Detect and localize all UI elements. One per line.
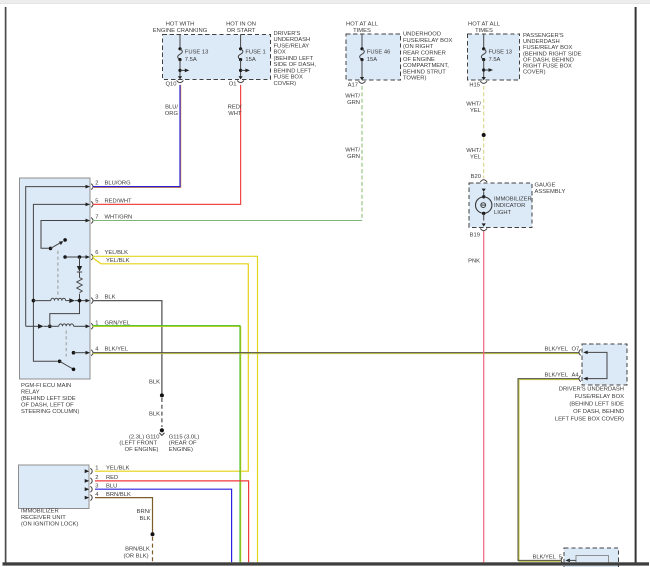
svg-text:3: 3 (95, 295, 98, 301)
svg-text:YEL: YEL (470, 108, 482, 114)
wire RED (receiver pin 2 to bottom edge) (95, 481, 249, 562)
label: driver's underdash fuse/relay box (right) description (555, 387, 624, 423)
fuse FUSE 1 15A (driver's box) (238, 34, 265, 76)
svg-text:RED/: RED/ (228, 105, 242, 111)
relay U1: PGM-FI ECU main relay box (20, 178, 91, 379)
svg-text:PNK: PNK (468, 259, 480, 265)
page frame left border (5, 7, 7, 565)
svg-text:YEL/BLK: YEL/BLK (106, 465, 130, 471)
svg-text:WHT/: WHT/ (345, 94, 360, 100)
svg-text:(BEHIND LEFT SIDE: (BEHIND LEFT SIDE (21, 396, 76, 402)
wire BLU (receiver pin 3 to bottom edge) (95, 489, 232, 562)
fuse FUSE 13 7.5A (passenger box) (481, 34, 512, 77)
wire WHT/YEL dashed (H15 to B20) (483, 86, 485, 178)
label: immobilizer receiver unit description (21, 508, 78, 527)
connector A4 (544, 373, 587, 382)
svg-text:OF ENGINE): OF ENGINE) (125, 447, 159, 453)
svg-text:RED/WHT: RED/WHT (105, 198, 133, 204)
gauge assembly box (469, 183, 532, 227)
label: passenger's underdash fuse/relay box description (523, 33, 582, 76)
node: BLK splice (160, 393, 164, 397)
svg-text:(BEHIND LEFT: (BEHIND LEFT (274, 56, 314, 62)
svg-text:2: 2 (95, 475, 98, 481)
wire GRN/YEL (pin 1 to bottom edge) (93, 326, 241, 563)
svg-text:HOT WITH: HOT WITH (166, 22, 195, 28)
label: BRN/BLK (OR BLK) (123, 547, 150, 560)
svg-text:BLK/YEL: BLK/YEL (532, 554, 556, 560)
wire: resistor to coil2 junction (50, 294, 80, 327)
svg-text:BRN/BLK: BRN/BLK (106, 492, 131, 498)
svg-text:Q10: Q10 (166, 82, 177, 88)
svg-text:LEFT FUSE BOX COVER): LEFT FUSE BOX COVER) (555, 417, 624, 423)
svg-text:BLK/YEL: BLK/YEL (544, 346, 568, 352)
fuse FUSE 13 7.5A (driver's box) (178, 34, 209, 76)
svg-text:3: 3 (95, 483, 98, 489)
svg-text:FUSE 13: FUSE 13 (489, 49, 513, 55)
svg-text:RECEIVER UNIT: RECEIVER UNIT (21, 515, 66, 521)
svg-text:ENGINE CRANKING: ENGINE CRANKING (153, 28, 208, 34)
svg-text:UNDERHOOD: UNDERHOOD (403, 32, 441, 38)
svg-text:B20: B20 (471, 174, 481, 180)
diode D2 (relay coil 2 series) (38, 324, 44, 329)
connector B20 (471, 174, 487, 192)
label: PGM-FI ECU main relay description (21, 383, 79, 415)
relay coil L1 (33, 298, 65, 300)
svg-text:DRIVER'S: DRIVER'S (274, 31, 301, 37)
connector H15 (469, 77, 487, 88)
wire BRN/BLK dashed (to bottom edge) (152, 537, 154, 563)
page frame bottom bar (3, 562, 650, 565)
label: RED/WHT (228, 105, 242, 118)
relay pin 4 connector (86, 347, 129, 356)
ground G110/G115 (159, 428, 164, 435)
wire YEL/BLK 1 (pin 6 to bottom edge) (93, 256, 258, 562)
svg-text:7.5A: 7.5A (185, 57, 197, 63)
fuse box: underhood fuse/relay box (346, 34, 401, 80)
svg-text:FUSE 1: FUSE 1 (245, 49, 265, 55)
relay pin 7 connector (86, 215, 133, 224)
svg-text:7: 7 (95, 215, 98, 221)
svg-text:INDICATOR: INDICATOR (494, 203, 525, 209)
svg-text:RED: RED (106, 475, 118, 481)
svg-text:(2.3L) G110: (2.3L) G110 (129, 434, 160, 440)
svg-text:5: 5 (95, 198, 98, 204)
svg-text:G115 (3.0L): G115 (3.0L) (169, 434, 200, 440)
svg-text:BLK/YEL: BLK/YEL (105, 347, 129, 353)
relay contact SW2 (movable arm) (58, 360, 75, 372)
svg-text:BRN/BLK: BRN/BLK (125, 547, 150, 553)
svg-text:A17: A17 (348, 82, 358, 88)
fuse box: passenger's underdash fuse/relay box (468, 34, 520, 80)
svg-text:COMPARTMENT,: COMPARTMENT, (403, 63, 449, 69)
label: G115 (3.0L) (REAR OF ENGINE) (169, 434, 200, 453)
svg-text:FUSE/RELAY BOX: FUSE/RELAY BOX (403, 38, 453, 44)
diode D3 (relay coil 1 series) (69, 298, 75, 303)
node: BRN/BLK splice (151, 532, 155, 536)
wire BRN/BLK (receiver pin 4) (95, 498, 153, 535)
label: WHT/GRN upper (345, 94, 360, 107)
label: BRN/BLK (137, 509, 151, 522)
connector Q10 (166, 76, 184, 87)
svg-text:UNDERDASH: UNDERDASH (274, 37, 311, 43)
connector O1 (229, 76, 244, 87)
connector O7 (544, 346, 587, 355)
svg-text:5: 5 (559, 554, 562, 560)
svg-text:LIGHT: LIGHT (494, 210, 512, 216)
label: BLU/ORG (165, 105, 179, 118)
svg-text:TIMES: TIMES (353, 28, 371, 34)
svg-text:(LEFT FRONT: (LEFT FRONT (119, 441, 157, 447)
label: (2.3L) G110 (LEFT FRONT OF ENGINE) (119, 434, 159, 453)
svg-text:OF DASH, BEHIND: OF DASH, BEHIND (523, 57, 574, 63)
connector 5 (bottom right box) (532, 554, 576, 563)
svg-text:H15: H15 (469, 82, 480, 88)
svg-text:BLK: BLK (105, 295, 116, 301)
svg-text:YEL: YEL (470, 154, 482, 160)
relay pin 6 connector (86, 250, 129, 260)
svg-text:TOWER): TOWER) (403, 76, 426, 82)
svg-text:1: 1 (95, 465, 98, 471)
relay pin 5 connector (86, 198, 133, 207)
label: underhood fuse/relay box description (403, 32, 453, 82)
component box inside bottom right box (576, 555, 608, 564)
svg-text:6: 6 (95, 250, 98, 256)
svg-text:ORG: ORG (165, 111, 179, 117)
svg-text:OF DASH, BEHIND: OF DASH, BEHIND (573, 409, 624, 415)
wire YEL/BLK 2 (pin 6 branch to receiver pin 1) (93, 258, 249, 471)
svg-text:SIDE OF DASH,: SIDE OF DASH, (274, 62, 317, 68)
wire BLK dashed (to ground point) (161, 398, 163, 427)
svg-text:(ON RIGHT: (ON RIGHT (403, 44, 434, 50)
mechanical link (dashed) contact 2 (65, 331, 67, 357)
svg-text:A4: A4 (572, 373, 580, 379)
svg-text:TIMES: TIMES (475, 28, 493, 34)
svg-text:(OR BLK): (OR BLK) (123, 553, 148, 559)
svg-text:(REAR OF: (REAR OF (169, 441, 197, 447)
label: driver's underdash fuse/relay box description (274, 31, 317, 87)
svg-text:GRN: GRN (347, 154, 360, 160)
svg-text:BLK/YEL: BLK/YEL (544, 373, 568, 379)
svg-text:BEHIND LEFT: BEHIND LEFT (274, 68, 312, 74)
svg-text:STEERING COLUMN): STEERING COLUMN) (21, 409, 79, 415)
svg-text:YEL/BLK: YEL/BLK (106, 258, 130, 264)
fuse box: driver's underdash fuse/relay box (right) (582, 344, 627, 385)
svg-text:FUSE BOX: FUSE BOX (274, 75, 303, 81)
svg-text:BLK: BLK (140, 516, 151, 522)
connector B19 (470, 223, 487, 238)
wire WHT/GRN vertical dashed (to A17) (361, 86, 363, 221)
page frame top strip (0, 0, 650, 3)
receiver pin 2 connector (85, 475, 119, 484)
svg-text:(BEHIND RIGHT SIDE: (BEHIND RIGHT SIDE (523, 51, 582, 57)
node: pin5/coil1 junction (32, 299, 36, 303)
fuse FUSE 46 15A (360, 34, 391, 77)
svg-text:YEL/BLK: YEL/BLK (105, 250, 129, 256)
relay pin 1 connector (86, 320, 131, 329)
fuse box: bottom right dashed box (564, 548, 618, 567)
lamp: immobilizer indicator light (476, 192, 492, 221)
svg-text:HOT AT ALL: HOT AT ALL (346, 22, 379, 28)
svg-text:15A: 15A (367, 57, 377, 63)
svg-text:DRIVER'S UNDERDASH: DRIVER'S UNDERDASH (559, 387, 624, 393)
svg-text:PASSENGER'S: PASSENGER'S (523, 33, 564, 39)
svg-text:HOT AT ALL: HOT AT ALL (468, 22, 501, 28)
svg-text:FUSE 46: FUSE 46 (367, 49, 391, 55)
label: HOT AT ALL TIMES (passenger) (468, 22, 501, 34)
page frame right border (635, 7, 637, 565)
wire: internal O7 to A4 loop (586, 352, 607, 378)
svg-text:2: 2 (95, 181, 98, 187)
label: HOT IN ON OR START (226, 22, 256, 34)
svg-text:ASSEMBLY: ASSEMBLY (535, 189, 566, 195)
connector A17 (348, 77, 366, 88)
svg-text:GAUGE: GAUGE (535, 182, 556, 188)
svg-text:IMMOBILIZER: IMMOBILIZER (21, 508, 59, 514)
node: coil2 junction (48, 325, 52, 329)
wire: relay internal pin 5 feed (33, 204, 86, 361)
svg-text:OF ENGINE: OF ENGINE (403, 57, 435, 63)
svg-text:WHT/GRN: WHT/GRN (105, 215, 133, 221)
wire RED/WHT (pin 5 to O1) (93, 85, 241, 204)
wire: relay internal pin 6 row (63, 255, 86, 259)
svg-text:O1: O1 (229, 82, 237, 88)
svg-text:WHT/: WHT/ (466, 101, 481, 107)
wire WHT/GRN horizontal (pin 7) (93, 220, 362, 222)
label: IMMOBILIZER INDICATOR LIGHT (494, 197, 532, 216)
wire BLK/YEL (A4 to bottom right box pin 5) (518, 379, 579, 562)
label: WHT/YEL lower (466, 148, 482, 161)
svg-text:O7: O7 (572, 346, 580, 352)
svg-text:PGM-FI ECU MAIN: PGM-FI ECU MAIN (21, 383, 71, 389)
svg-text:FUSE/RELAY: FUSE/RELAY (274, 43, 310, 49)
wire BLU/ORG (pin 2 to Q10) (93, 85, 181, 188)
svg-text:OF DASH, LEFT OF: OF DASH, LEFT OF (21, 403, 74, 409)
svg-text:COVER): COVER) (523, 70, 546, 76)
relay pin 2 connector (86, 181, 132, 190)
svg-text:FUSE/RELAY BOX: FUSE/RELAY BOX (575, 394, 625, 400)
label: WHT/YEL upper (466, 101, 482, 114)
svg-text:WHT/: WHT/ (466, 148, 481, 154)
svg-text:BLU/: BLU/ (165, 105, 178, 111)
resistor R1 (77, 278, 82, 293)
svg-text:COVER): COVER) (274, 81, 297, 87)
svg-text:7.5A: 7.5A (489, 57, 501, 63)
svg-text:BRN/: BRN/ (137, 509, 151, 515)
svg-text:BLU/ORG: BLU/ORG (105, 181, 132, 187)
svg-text:UNDERDASH: UNDERDASH (523, 39, 560, 45)
label: GAUGE ASSEMBLY (535, 182, 566, 195)
immobilizer receiver unit box (19, 465, 90, 509)
label: HOT WITH ENGINE CRANKING (153, 22, 208, 34)
receiver pin 4 connector (85, 492, 131, 501)
wire BLK/YEL (pin 4 to driver's box O7) (93, 353, 579, 354)
svg-text:WHT: WHT (228, 111, 242, 117)
label: WHT/GRN lower (345, 147, 360, 160)
relay contact SW1 (movable arm) (49, 238, 67, 250)
svg-text:BOX: BOX (274, 50, 286, 56)
svg-text:ENGINE): ENGINE) (169, 447, 193, 453)
fuse box: driver's underdash fuse/relay box (top left) (163, 34, 271, 79)
svg-text:OR START: OR START (227, 28, 256, 34)
wire PNK (B19 to bottom edge) (483, 231, 485, 562)
svg-text:BLK: BLK (149, 379, 160, 385)
svg-text:GRN: GRN (347, 100, 360, 106)
svg-text:WHT/: WHT/ (345, 147, 360, 153)
diode D1 (to resistor) (77, 257, 82, 278)
svg-text:FUSE/RELAY BOX: FUSE/RELAY BOX (523, 45, 573, 51)
receiver pin 3 connector (85, 483, 118, 492)
mechanical link (dashed) contact 1 (57, 251, 59, 296)
svg-text:BLK: BLK (149, 411, 160, 417)
relay pin 3 connector (86, 295, 116, 304)
wire BLK (pin 3 to ground) (93, 301, 162, 396)
wire: relay internal pin 2 feed (26, 187, 87, 327)
svg-text:BEHIND STRUT: BEHIND STRUT (403, 69, 446, 75)
node: pin3 crossing junction (78, 299, 82, 303)
svg-text:FUSE 13: FUSE 13 (185, 49, 209, 55)
svg-text:15A: 15A (245, 57, 255, 63)
label: HOT AT ALL TIMES (underhood) (346, 22, 379, 34)
svg-text:HOT IN ON: HOT IN ON (226, 22, 256, 28)
svg-text:BLU: BLU (106, 483, 117, 489)
relay coil L2 (59, 324, 74, 326)
svg-text:IMMOBILIZER: IMMOBILIZER (494, 197, 532, 203)
node: WHT/YEL splice (482, 133, 486, 137)
wire: relay internal pin 7 to contact 1 (41, 221, 87, 249)
svg-text:(BEHIND LEFT SIDE: (BEHIND LEFT SIDE (569, 402, 624, 408)
svg-text:RIGHT FUSE BOX: RIGHT FUSE BOX (523, 64, 572, 70)
wire: relay internal pin 4 row (72, 351, 87, 355)
svg-text:RELAY: RELAY (21, 390, 40, 396)
svg-text:(ON IGNITION LOCK): (ON IGNITION LOCK) (21, 522, 78, 528)
receiver pin 1 connector (85, 465, 130, 474)
svg-text:REAR CORNER: REAR CORNER (403, 51, 446, 57)
svg-text:B19: B19 (470, 232, 480, 238)
